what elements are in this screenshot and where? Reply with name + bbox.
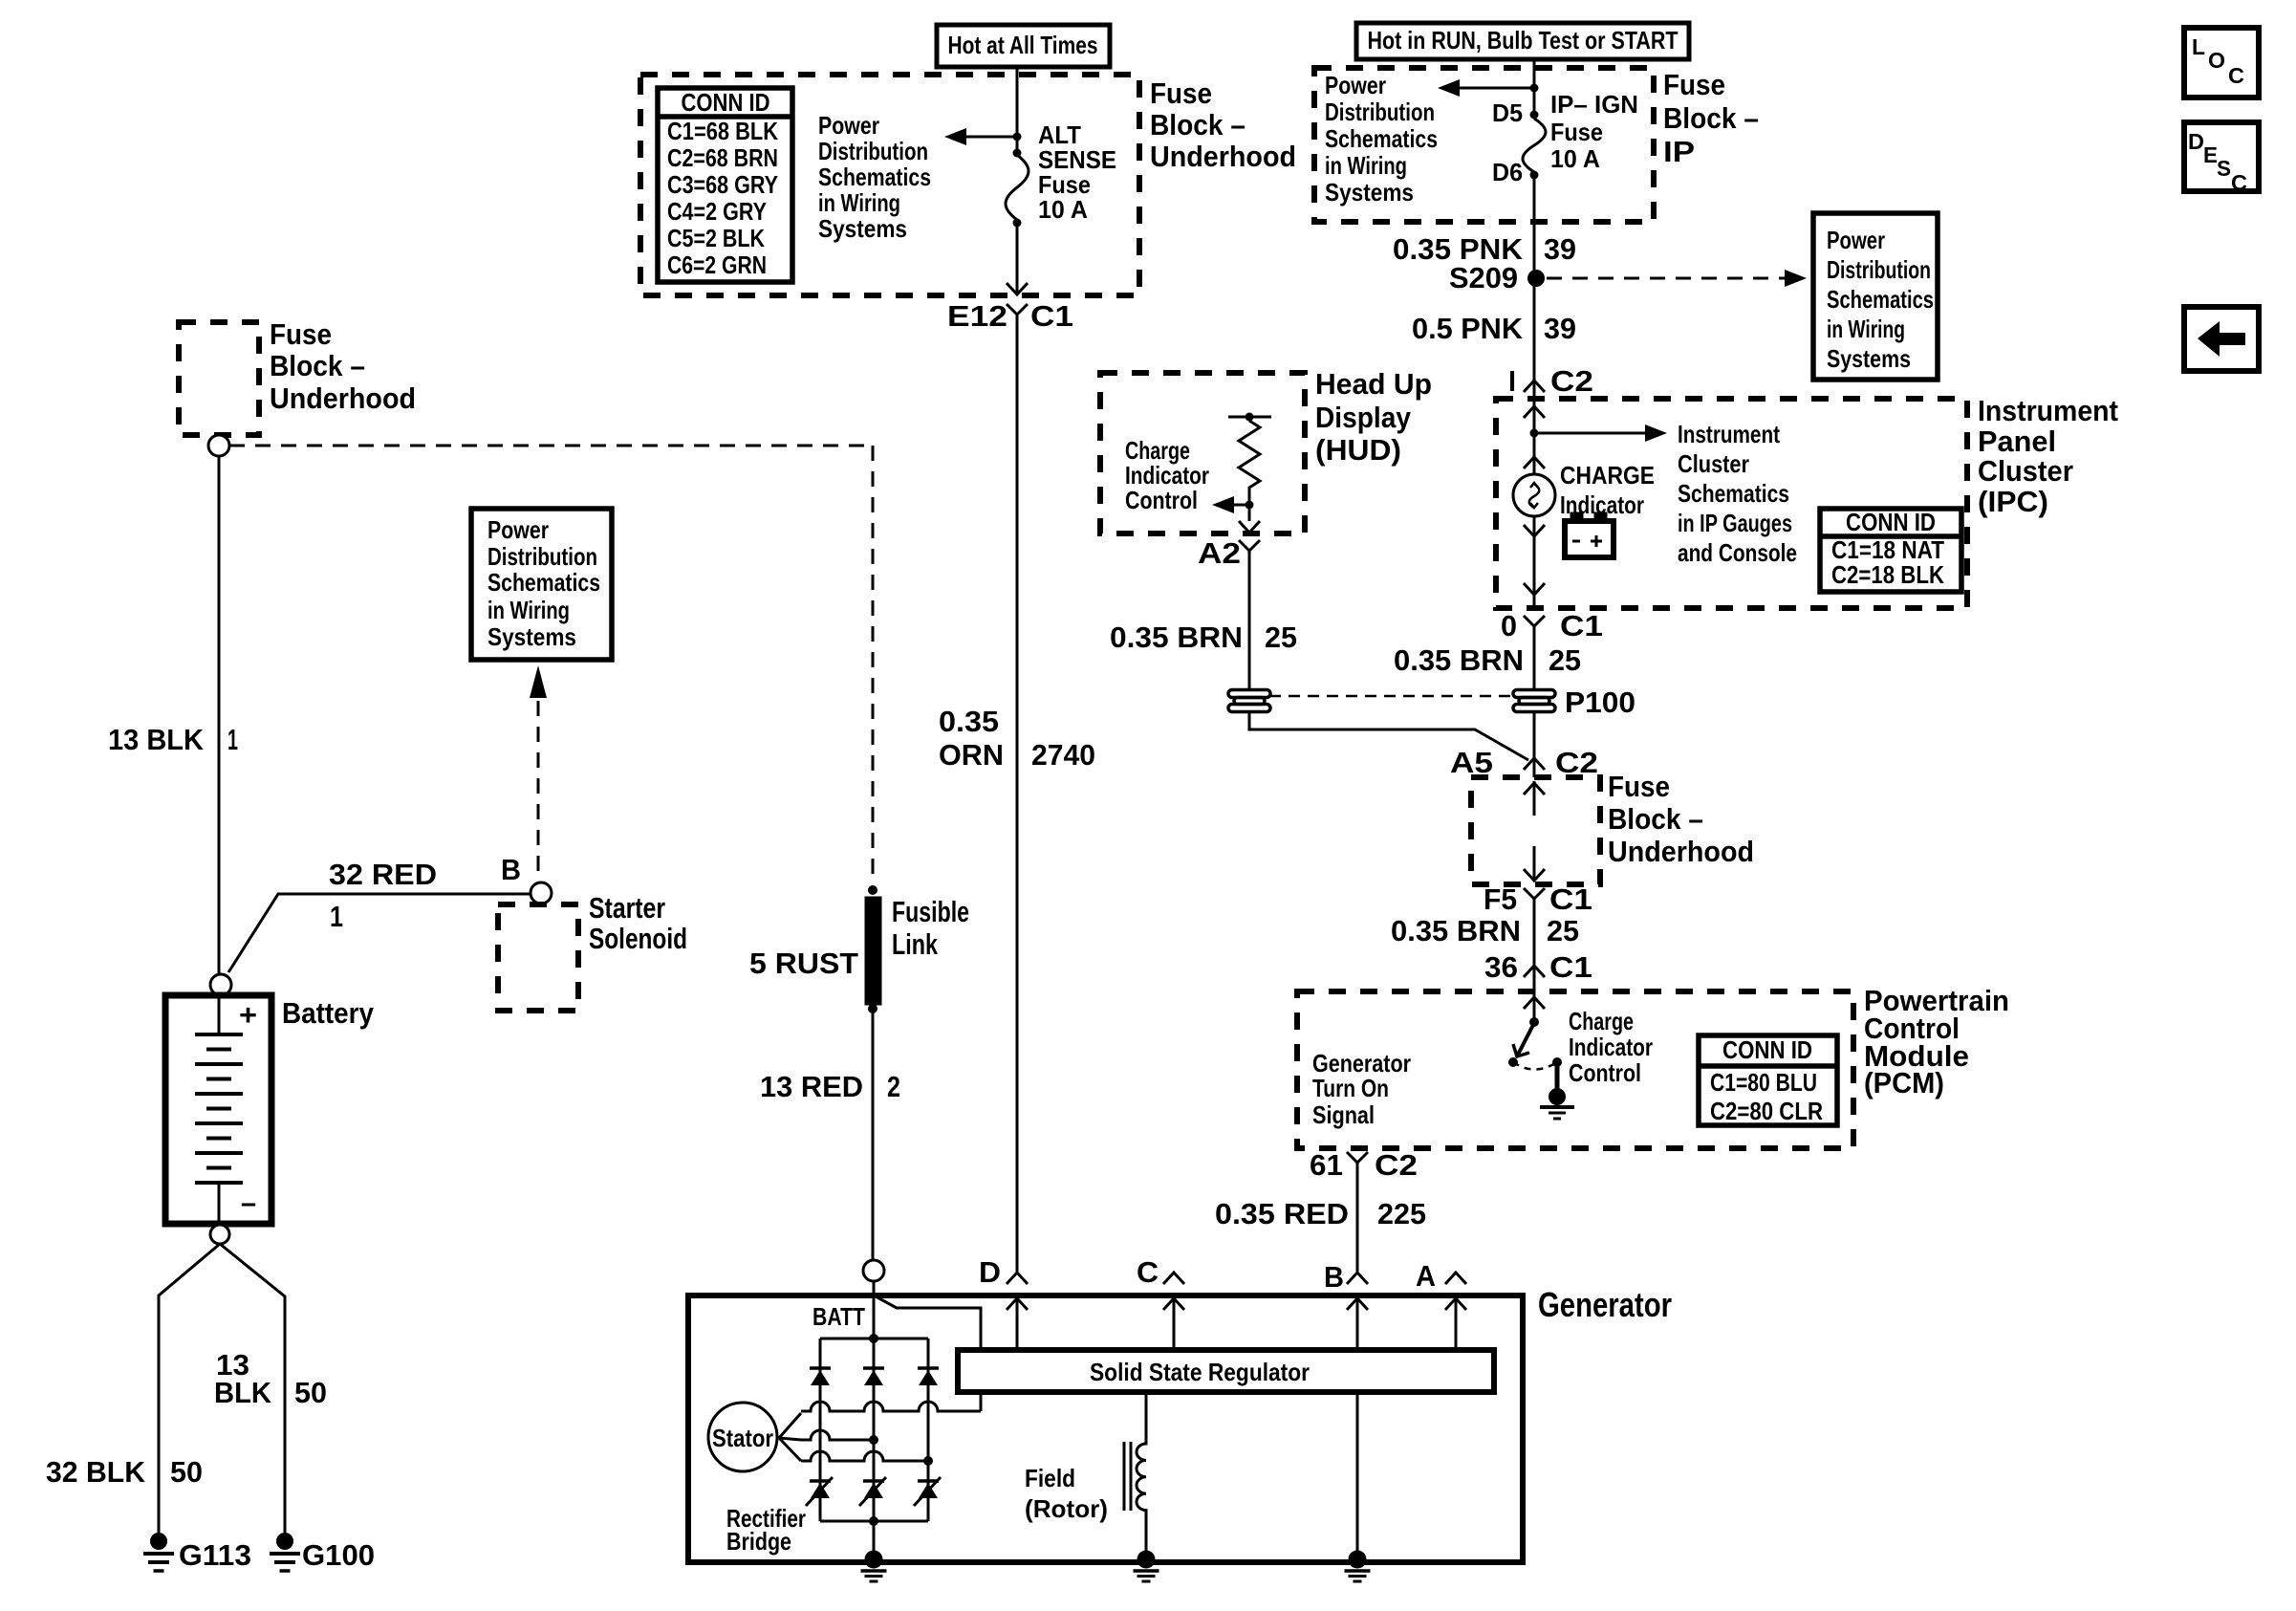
svg-text:Fuse: Fuse <box>1150 76 1212 110</box>
label: 0.35 BRN 25 (lower) <box>1391 914 1579 947</box>
label: 13 RED 2 <box>760 1070 900 1103</box>
icon back-arrow button <box>2184 307 2259 371</box>
label: 0.5 PNK 39 <box>1412 312 1576 345</box>
label: 13 BLK 1 <box>108 723 238 756</box>
svg-text:(IPC): (IPC) <box>1978 485 2048 518</box>
connector 0 C1 (IPC) <box>1501 609 1603 642</box>
svg-text:A: A <box>1416 1259 1436 1293</box>
junction dot in IPC <box>1530 429 1539 438</box>
svg-text:Hot in RUN, Bulb Test or START: Hot in RUN, Bulb Test or START <box>1368 26 1679 54</box>
label: Rectifier Bridge <box>726 1504 806 1556</box>
svg-text:Fusible: Fusible <box>892 895 969 928</box>
wire: A terminal to regulator <box>1445 1293 1466 1350</box>
wire: 0.35 PNK 39 <box>1533 172 1536 399</box>
svg-text:Distribution: Distribution <box>1827 255 1931 284</box>
svg-text:Distribution: Distribution <box>818 137 928 165</box>
note box: Power Distribution Schematics in Wiring Systems (right) <box>1813 213 1938 380</box>
label: Battery <box>282 996 375 1030</box>
svg-text:39: 39 <box>1544 312 1576 345</box>
svg-text:in Wiring: in Wiring <box>1325 151 1407 180</box>
svg-text:D: D <box>2188 129 2204 154</box>
svg-text:L: L <box>2192 34 2205 59</box>
svg-text:Schematics: Schematics <box>487 568 600 597</box>
svg-text:5 RUST: 5 RUST <box>749 947 858 980</box>
svg-text:C1=80 BLU: C1=80 BLU <box>1710 1068 1817 1097</box>
note: Power Distribution Schematics in Wiring Systems (underhood) <box>818 111 931 243</box>
connector C (generator) <box>1137 1255 1184 1289</box>
svg-text:Charge: Charge <box>1569 1007 1634 1035</box>
svg-text:B: B <box>501 853 521 886</box>
CONN ID table (PCM) <box>1699 1035 1837 1125</box>
CONN ID table (IPC) <box>1820 508 1961 592</box>
svg-text:Power: Power <box>818 111 879 140</box>
svg-text:Fuse: Fuse <box>270 317 332 351</box>
svg-text:C1: C1 <box>1030 299 1073 333</box>
rectifier zener Z3 <box>914 1477 941 1506</box>
svg-text:Systems: Systems <box>1827 344 1911 373</box>
ground G113 <box>143 1533 174 1571</box>
svg-text:A5: A5 <box>1450 746 1493 779</box>
svg-text:and Console: and Console <box>1678 538 1797 567</box>
powertrain control module dashed box <box>1297 991 1853 1148</box>
svg-text:Block –: Block – <box>1608 802 1703 836</box>
svg-text:Field: Field <box>1025 1464 1075 1492</box>
svg-text:32 RED: 32 RED <box>329 858 437 891</box>
label: 0.35 ORN 2740 <box>939 705 1095 772</box>
note: Power Distribution Schematics in Wiring Systems (IP) <box>1325 71 1438 207</box>
label: D5 <box>1492 98 1523 127</box>
label: Fusible Link <box>892 895 969 961</box>
label: 0.35 BRN 25 (HUD) <box>1110 620 1297 654</box>
stator phase winding 3 (to right leg) <box>779 1438 933 1466</box>
svg-text:0.35 BRN: 0.35 BRN <box>1391 914 1521 947</box>
svg-text:36: 36 <box>1484 950 1518 984</box>
label: Head Up Display (HUD) <box>1315 367 1432 467</box>
label: Fuse Block - Underhood (center) <box>1150 76 1296 173</box>
svg-text:13 BLK: 13 BLK <box>108 723 205 756</box>
power feed box: Hot in RUN, Bulb Test or START <box>1356 23 1689 59</box>
svg-text:25: 25 <box>1265 620 1297 654</box>
rectifier diode D1 <box>810 1368 831 1385</box>
fuse block IP dashed box <box>1314 68 1654 222</box>
svg-text:Control: Control <box>1569 1058 1641 1087</box>
label: 0.35 PNK 39 <box>1393 232 1576 266</box>
svg-text:C: C <box>2228 63 2244 88</box>
svg-text:Hot at All Times: Hot at All Times <box>948 31 1098 59</box>
svg-text:Systems: Systems <box>1325 178 1414 207</box>
solid state regulator box <box>958 1350 1494 1392</box>
svg-text:IP: IP <box>1663 135 1695 168</box>
wire: IP-IGN feed <box>1533 59 1536 119</box>
svg-text:ORN: ORN <box>939 738 1004 772</box>
svg-text:Cluster: Cluster <box>1678 449 1749 478</box>
note box: Power Distribution Schematics in Wiring Systems (left) <box>471 509 612 660</box>
pass-through connector P100 (right) <box>1513 690 1555 712</box>
svg-text:0.35 RED: 0.35 RED <box>1215 1197 1349 1230</box>
svg-text:Starter: Starter <box>589 891 665 925</box>
svg-text:D5: D5 <box>1492 98 1523 127</box>
label: Starter Solenoid <box>589 891 687 955</box>
terminal circle at battery positive <box>210 974 231 995</box>
svg-text:Fuse: Fuse <box>1608 770 1670 803</box>
terminal circle at starter solenoid B <box>531 882 552 903</box>
svg-text:+: + <box>239 998 257 1032</box>
terminal circle at battery negative <box>210 1225 229 1244</box>
wire: BATT sense to regulator <box>876 1296 981 1350</box>
fuse block underhood (right) dashed box <box>1471 777 1600 884</box>
dashed link between P100 halves <box>1269 695 1512 698</box>
svg-text:O: O <box>2208 48 2225 73</box>
junction dot below fusible link <box>868 1004 877 1013</box>
svg-text:32 BLK: 32 BLK <box>46 1455 146 1489</box>
wire: HUD branch to A5 junction <box>1249 712 1528 760</box>
svg-text:Underhood: Underhood <box>1608 835 1754 868</box>
wire with arrow out of IPC <box>1524 517 1545 608</box>
svg-text:1: 1 <box>330 900 343 933</box>
svg-text:Link: Link <box>892 927 939 961</box>
note: Instrument Cluster Schematics in IP Gauges and Console <box>1678 420 1797 567</box>
charge indicator lamp symbol <box>1513 457 1555 536</box>
label: P100 <box>1565 686 1635 719</box>
svg-text:Schematics: Schematics <box>1678 479 1789 508</box>
svg-text:0.35: 0.35 <box>939 705 999 738</box>
wire: 0.35 ORN 2740 <box>1016 327 1019 1272</box>
junction dot on IP-IGN feed <box>1530 84 1539 93</box>
label: Fuse Block - IP <box>1663 68 1759 168</box>
svg-text:in Wiring: in Wiring <box>818 188 900 217</box>
label: 0.35 RED 225 <box>1215 1197 1426 1230</box>
wire: D terminal to regulator <box>1007 1293 1028 1350</box>
svg-text:Underhood: Underhood <box>1150 140 1296 173</box>
fuse: IP-IGN Fuse 10 A <box>1523 111 1546 180</box>
label: - (battery) <box>241 1186 256 1219</box>
svg-text:Block –: Block – <box>270 349 365 382</box>
junction dot above fusible link <box>868 885 877 895</box>
connector B (generator) <box>1324 1260 1368 1294</box>
field rotor coil <box>1124 1392 1146 1556</box>
arrow to instrument cluster schematics note <box>1534 425 1667 442</box>
svg-text:CONN ID: CONN ID <box>682 88 770 117</box>
label: Generator <box>1538 1285 1672 1324</box>
connector A5 C2 <box>1450 746 1598 779</box>
arrow to power distribution (underhood) <box>944 128 1017 145</box>
wire: 0.35 BRN 25 (IPC to P100) <box>1533 639 1536 689</box>
label: Fuse Block - Underhood (left) <box>270 317 416 415</box>
svg-text:B: B <box>1324 1260 1344 1294</box>
label: Instrument Panel Cluster (IPC) <box>1978 394 2118 518</box>
label: CHARGE Indicator <box>1560 461 1655 519</box>
connector A2 (HUD) <box>1198 536 1260 570</box>
svg-text:C2: C2 <box>1375 1148 1418 1182</box>
svg-text:Power: Power <box>1827 226 1885 254</box>
svg-text:2: 2 <box>887 1070 900 1103</box>
svg-text:C3=68 GRY: C3=68 GRY <box>667 170 778 199</box>
svg-text:C6=2 GRN: C6=2 GRN <box>667 250 767 279</box>
arrow left at HUD resistor <box>1212 496 1254 513</box>
svg-text:0.35 BRN: 0.35 BRN <box>1394 643 1524 677</box>
ground: regulator to case <box>1345 1551 1371 1582</box>
ground: rectifier bridge to case <box>861 1521 887 1581</box>
svg-text:Schematics: Schematics <box>1827 285 1934 314</box>
svg-text:S209: S209 <box>1449 261 1518 294</box>
wire: 13 RED 2 <box>872 1009 875 1260</box>
starter solenoid dashed box <box>498 904 578 1011</box>
svg-text:Power: Power <box>1325 71 1386 99</box>
label: Stator <box>712 1424 773 1452</box>
wire: ALT SENSE feed from Hot at All Times <box>1016 67 1019 155</box>
svg-text:Bridge: Bridge <box>726 1527 791 1556</box>
head up display dashed box <box>1100 373 1305 533</box>
wire: battery negative to G100 <box>220 1244 285 1533</box>
svg-text:Indicator: Indicator <box>1569 1033 1653 1061</box>
svg-text:Battery: Battery <box>282 996 375 1030</box>
svg-text:Power: Power <box>487 515 549 544</box>
wire: dashed link fuse block to fusible link <box>229 446 873 884</box>
rectifier bridge top bus <box>820 1334 928 1343</box>
svg-text:Fuse: Fuse <box>1550 118 1603 146</box>
rectifier bridge bottom bus <box>820 1516 928 1526</box>
svg-text:10 A: 10 A <box>1038 195 1088 224</box>
rectifier zener Z2 <box>859 1477 886 1506</box>
svg-text:C5=2 BLK: C5=2 BLK <box>667 224 765 252</box>
resistor: charge indicator control (HUD) <box>1228 413 1271 522</box>
svg-text:E: E <box>2203 142 2218 167</box>
wire: battery negative to G113 <box>159 1244 220 1533</box>
label: ALT SENSE Fuse 10 A <box>1038 120 1116 224</box>
svg-text:C: C <box>2231 170 2247 195</box>
label: 0.35 BRN 25 (center) <box>1394 643 1581 677</box>
svg-text:Distribution: Distribution <box>1325 98 1435 126</box>
svg-text:10 A: 10 A <box>1550 144 1600 173</box>
svg-text:Instrument: Instrument <box>1978 394 2118 427</box>
svg-text:0: 0 <box>1501 609 1517 642</box>
svg-text:in Wiring: in Wiring <box>487 596 570 624</box>
label: 13 BLK 50 <box>214 1348 327 1409</box>
svg-text:IP– IGN: IP– IGN <box>1550 90 1638 119</box>
wire: B terminal to regulator <box>1347 1293 1368 1350</box>
battery icon (charge indicator) <box>1565 512 1614 557</box>
svg-text:C2=18 BLK: C2=18 BLK <box>1831 560 1944 589</box>
svg-text:39: 39 <box>1544 232 1576 266</box>
icon DESC button <box>2184 122 2259 195</box>
svg-text:D: D <box>979 1255 1001 1289</box>
svg-text:Block –: Block – <box>1150 108 1245 142</box>
CONN ID table (underhood) <box>658 88 792 282</box>
svg-text:BATT: BATT <box>812 1302 865 1331</box>
svg-text:in IP Gauges: in IP Gauges <box>1678 509 1792 537</box>
svg-text:G113: G113 <box>179 1538 251 1572</box>
ground G100 <box>270 1533 300 1571</box>
svg-text:Control: Control <box>1125 486 1198 514</box>
label: Charge Indicator Control (HUD) <box>1125 436 1209 514</box>
label: Charge Indicator Control (PCM) <box>1569 1007 1653 1087</box>
svg-text:G100: G100 <box>302 1538 375 1572</box>
svg-text:2740: 2740 <box>1031 738 1095 772</box>
connector I C2 (IPC) <box>1508 364 1593 398</box>
svg-text:CONN ID: CONN ID <box>1846 508 1936 536</box>
svg-text:25: 25 <box>1547 914 1579 947</box>
wire: 0.35 RED 225 <box>1356 1175 1359 1272</box>
connector E12 C1 <box>947 299 1073 333</box>
rectifier diode D2 <box>863 1368 884 1385</box>
svg-text:Schematics: Schematics <box>818 163 931 191</box>
svg-text:Solenoid: Solenoid <box>589 922 687 955</box>
svg-text:C: C <box>1137 1255 1159 1289</box>
svg-text:C4=2 GRY: C4=2 GRY <box>667 197 767 226</box>
svg-text:P100: P100 <box>1565 686 1635 719</box>
label: Generator Turn On Signal <box>1312 1049 1411 1129</box>
svg-text:CONN ID: CONN ID <box>1722 1035 1812 1064</box>
wire: into generator BATT <box>873 1281 876 1339</box>
svg-text:Underhood: Underhood <box>270 381 416 415</box>
svg-text:Stator: Stator <box>712 1424 773 1452</box>
arrow to power distribution (IP) <box>1438 79 1534 97</box>
connector A (generator) <box>1416 1259 1466 1293</box>
fuse block underhood (center) dashed box <box>640 75 1139 295</box>
connector F5 C1 <box>1484 882 1592 916</box>
svg-text:–: – <box>241 1186 256 1219</box>
svg-text:F5: F5 <box>1484 882 1517 916</box>
stator phase winding 2 (to center leg) <box>779 1430 878 1445</box>
dashed arrow: S209 to power distribution note <box>1547 270 1807 287</box>
terminal circle at fuse block (left) <box>208 435 229 456</box>
battery B1 box <box>165 995 271 1224</box>
svg-text:S: S <box>2217 156 2231 181</box>
svg-text:Systems: Systems <box>487 622 576 651</box>
label: Powertrain Control Module (PCM) <box>1864 984 2009 1099</box>
svg-text:I: I <box>1508 364 1516 398</box>
svg-text:CHARGE: CHARGE <box>1560 461 1655 490</box>
svg-text:D6: D6 <box>1492 158 1523 186</box>
svg-text:Schematics: Schematics <box>1325 124 1438 153</box>
svg-text:BLK: BLK <box>214 1376 272 1409</box>
svg-text:Instrument: Instrument <box>1678 420 1780 448</box>
wire: regulator to case ground <box>1356 1392 1359 1556</box>
svg-text:C1: C1 <box>1549 950 1592 984</box>
rectifier bridge branch wires <box>820 1339 928 1521</box>
dashed arrow: solenoid to power distribution note <box>530 665 547 872</box>
svg-text:C2=68 BRN: C2=68 BRN <box>667 143 778 172</box>
svg-text:(Rotor): (Rotor) <box>1025 1494 1108 1523</box>
wire with arrow into IPC <box>1524 399 1545 474</box>
svg-text:Cluster: Cluster <box>1978 454 2073 488</box>
wire: C terminal to regulator <box>1163 1293 1184 1350</box>
svg-text:13 RED: 13 RED <box>760 1070 863 1103</box>
svg-text:C2: C2 <box>1555 746 1598 779</box>
svg-text:50: 50 <box>170 1455 203 1489</box>
svg-text:C1: C1 <box>1549 882 1592 916</box>
power feed box: Hot at All Times <box>937 25 1110 67</box>
svg-text:in Wiring: in Wiring <box>1827 315 1905 343</box>
svg-text:25: 25 <box>1549 643 1581 677</box>
connector 36 C1 (PCM) <box>1484 950 1592 984</box>
svg-text:A2: A2 <box>1198 536 1241 570</box>
stator phase winding 1 (to regulator) <box>779 1392 981 1438</box>
junction dot on ALT SENSE feed <box>1013 133 1022 142</box>
fusible link element <box>865 897 881 1005</box>
label: 32 BLK 50 <box>46 1455 203 1489</box>
wire: 0.35 BRN 25 (HUD to P100) <box>1248 563 1251 689</box>
svg-text:50: 50 <box>294 1376 327 1409</box>
connector 61 C2 (PCM) <box>1310 1148 1418 1182</box>
wire: 0.35 BRN 25 (to PCM) <box>1533 911 1536 991</box>
svg-text:Generator: Generator <box>1538 1285 1672 1324</box>
generator box <box>688 1295 1523 1562</box>
svg-text:C2: C2 <box>1550 364 1593 398</box>
label: G100 <box>302 1538 375 1572</box>
terminal circle at generator BATT <box>863 1260 884 1281</box>
svg-text:1: 1 <box>227 723 238 756</box>
svg-text:Distribution: Distribution <box>487 542 597 571</box>
svg-text:Block –: Block – <box>1663 101 1759 135</box>
wire: P100 to A5 <box>1533 712 1536 777</box>
svg-text:Signal: Signal <box>1312 1100 1375 1129</box>
fuse block underhood (left) dashed box <box>179 322 259 435</box>
wire: 13 BLK 1 battery feed <box>218 456 221 974</box>
splice S209 <box>1449 261 1545 294</box>
svg-text:Display: Display <box>1315 401 1412 434</box>
rectifier diode D3 <box>918 1368 939 1385</box>
rectifier zener Z1 <box>806 1477 833 1506</box>
label: Fuse Block - Underhood (right) <box>1608 770 1754 868</box>
stator circle <box>708 1403 777 1471</box>
svg-text:E12: E12 <box>947 299 1007 333</box>
connector D (generator) <box>979 1255 1028 1289</box>
svg-text:Systems: Systems <box>818 214 907 243</box>
svg-text:Solid State Regulator: Solid State Regulator <box>1090 1358 1310 1386</box>
svg-text:Head Up: Head Up <box>1315 367 1432 401</box>
svg-text:(HUD): (HUD) <box>1315 433 1401 467</box>
label: D6 <box>1492 158 1523 186</box>
svg-text:Fuse: Fuse <box>1663 68 1725 101</box>
label: 32 RED 1 <box>329 858 437 933</box>
label: Field (Rotor) <box>1025 1464 1108 1523</box>
wire with arrow out of HUD <box>1239 521 1260 533</box>
battery cell plates <box>195 995 243 1224</box>
svg-text:0.5 PNK: 0.5 PNK <box>1412 312 1524 345</box>
svg-text:0.35 BRN: 0.35 BRN <box>1110 620 1243 654</box>
svg-text:225: 225 <box>1377 1197 1426 1230</box>
switch: charge indicator control driver <box>1508 991 1574 1119</box>
wire: 32 RED 1 to starter solenoid <box>228 894 531 972</box>
svg-text:C1=68 BLK: C1=68 BLK <box>667 117 778 145</box>
ground: field coil to case <box>1134 1551 1159 1582</box>
label: IP-IGN Fuse 10 A <box>1550 90 1638 173</box>
icon LOC button <box>2184 28 2259 98</box>
pass-through connector P100 (left) <box>1228 690 1270 712</box>
svg-text:Turn On: Turn On <box>1312 1074 1389 1102</box>
fuse: ALT SENSE Fuse 10 A <box>1006 149 1029 228</box>
wire with arrow out of fuse block (right) <box>1524 846 1545 881</box>
svg-text:C1: C1 <box>1560 609 1603 642</box>
svg-text:61: 61 <box>1310 1148 1343 1182</box>
label: G113 <box>179 1538 251 1572</box>
svg-text:C2=80 CLR: C2=80 CLR <box>1710 1097 1823 1125</box>
instrument panel cluster dashed box <box>1496 399 1967 608</box>
label: BATT <box>812 1302 865 1331</box>
svg-text:(PCM): (PCM) <box>1864 1066 1944 1099</box>
label: B (solenoid terminal) <box>501 853 521 886</box>
label: + (battery) <box>239 998 257 1032</box>
wire with arrow out of fuse block (E12) <box>1007 223 1028 294</box>
wire with arrow into fuse block (right) <box>1524 781 1545 816</box>
svg-text:Panel: Panel <box>1978 425 2056 458</box>
label: 5 RUST <box>749 947 858 980</box>
